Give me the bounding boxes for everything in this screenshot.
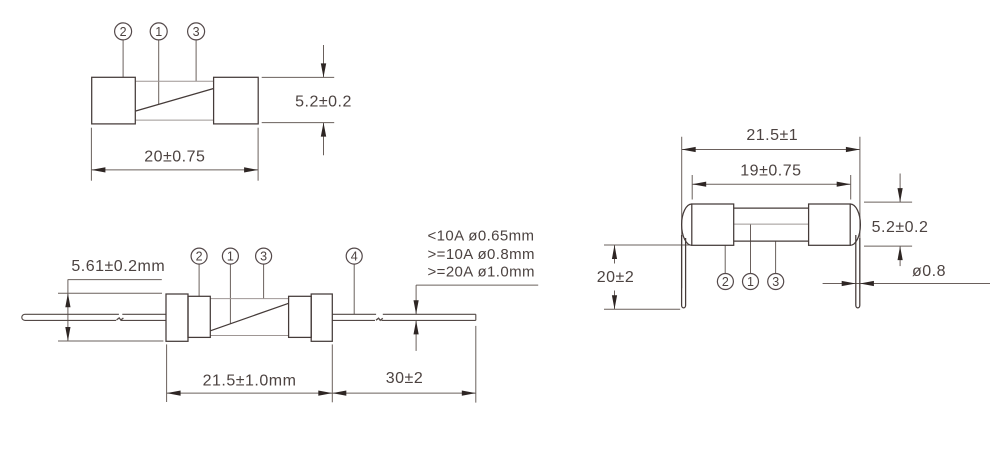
svg-text:1: 1 <box>747 275 754 289</box>
svg-text:21.5±1.0mm: 21.5±1.0mm <box>203 372 297 389</box>
svg-text:4: 4 <box>351 250 358 264</box>
svg-text:1: 1 <box>227 250 234 264</box>
svg-text:30±2: 30±2 <box>386 370 423 387</box>
svg-text:1: 1 <box>155 25 162 39</box>
svg-text:3: 3 <box>772 275 779 289</box>
svg-text:>=10A ø0.8mm: >=10A ø0.8mm <box>428 246 535 263</box>
svg-text:2: 2 <box>196 250 203 264</box>
svg-text:5.2±0.2: 5.2±0.2 <box>295 93 352 110</box>
svg-text:21.5±1: 21.5±1 <box>746 127 798 144</box>
svg-text:ø0.8: ø0.8 <box>912 263 946 280</box>
svg-text:20±0.75: 20±0.75 <box>144 149 205 166</box>
svg-text:5.61±0.2mm: 5.61±0.2mm <box>71 258 165 275</box>
svg-text:3: 3 <box>260 250 267 264</box>
svg-text:2: 2 <box>120 25 127 39</box>
svg-text:5.2±0.2: 5.2±0.2 <box>872 219 929 236</box>
svg-text:3: 3 <box>193 25 200 39</box>
svg-text:<10A ø0.65mm: <10A ø0.65mm <box>428 228 535 245</box>
svg-text:>=20A ø1.0mm: >=20A ø1.0mm <box>428 264 535 281</box>
svg-text:19±0.75: 19±0.75 <box>740 163 801 180</box>
svg-text:2: 2 <box>722 275 729 289</box>
svg-text:20±2: 20±2 <box>597 269 634 286</box>
